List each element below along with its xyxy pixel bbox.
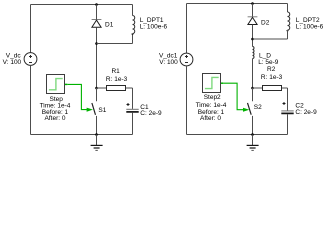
svg-text:C: 2e-9: C: 2e-9 (140, 110, 162, 117)
wire C1 bottom lead (132, 113, 134, 135)
wire D1 branch middle (96, 27, 98, 88)
wire gate signal right (green) (223, 83, 243, 110)
wire L_DPT1 branch top stub (132, 5, 134, 16)
svg-text:S2: S2 (254, 104, 262, 111)
node junction D1 / L_DPT1 tap (95, 42, 98, 45)
svg-text:After: 0: After: 0 (200, 115, 221, 122)
resistor R1 (107, 86, 126, 91)
node junction R1 tap (95, 87, 98, 90)
node junction D2 / L_DPT2 tap (251, 38, 254, 41)
node junction top of D2 branch (251, 2, 254, 5)
wire top rail right circuit (187, 3, 288, 5)
wire bottom rail left circuit (31, 134, 133, 136)
inductor L_DPT1 (131, 16, 135, 37)
wire C2 top lead (287, 88, 289, 111)
wire gate signal left (green) (67, 84, 87, 109)
inductor L_DPT2 (286, 12, 290, 33)
wire L_DPT2 bottom connection (253, 38, 288, 40)
resistor R2 (263, 86, 282, 91)
wire L_DPT2 branch bottom stub (287, 30, 289, 39)
gate arrowhead S2 (243, 108, 249, 112)
step source block Step2 (203, 74, 224, 93)
wire left branch lower (V_dc1 to bottom rail) (186, 66, 188, 135)
wire R1 left lead (97, 87, 107, 89)
wire R2 right lead (282, 87, 288, 89)
wire R2 left lead (253, 87, 263, 89)
svg-text:L: 5e-9: L: 5e-9 (258, 59, 279, 66)
node junction top of D1 branch (95, 3, 98, 6)
wire bottom rail right circuit (187, 134, 288, 136)
svg-text:Time: 1e-4: Time: 1e-4 (196, 102, 227, 109)
gate arrowhead S1 (87, 108, 93, 112)
svg-text:V: 100: V: 100 (159, 59, 178, 66)
svg-text:C: 2e-9: C: 2e-9 (295, 109, 317, 116)
svg-text:R1: R1 (111, 68, 120, 75)
step source block Step (47, 75, 68, 94)
voltage source V_dc (24, 53, 37, 66)
wire C2 bottom lead (287, 114, 289, 134)
svg-text:S1: S1 (98, 107, 106, 114)
wire C1 top lead (132, 88, 134, 109)
switch S1 (92, 88, 97, 135)
diode D1 (92, 20, 102, 28)
svg-text:L: 100e-6: L: 100e-6 (296, 23, 324, 30)
svg-text:After: 0: After: 0 (45, 115, 66, 122)
diode D2 (248, 17, 258, 25)
capacitor C1 (126, 103, 138, 112)
inductor L_D (253, 47, 255, 59)
node junction bottom of S1 branch (95, 133, 98, 136)
svg-text:Step2: Step2 (204, 94, 221, 101)
wire top rail left circuit (31, 4, 133, 6)
wire L_DPT1 branch bottom stub (132, 36, 134, 44)
wire left branch upper (V_dc to top rail) (30, 5, 32, 53)
ground right circuit (247, 135, 259, 151)
voltage source V_dc1 (180, 53, 193, 66)
wire L_D bottom lead (252, 59, 254, 89)
wire L_DPT1 bottom connection (97, 43, 133, 45)
wire left branch lower (V_dc to bottom rail) (30, 65, 32, 134)
switch S2 (248, 88, 253, 135)
svg-text:R: 1e-3: R: 1e-3 (106, 76, 128, 83)
svg-text:L: 100e-6: L: 100e-6 (140, 23, 168, 30)
wire D2 branch upper (252, 4, 254, 17)
wire left branch upper (V_dc1 to top rail) (186, 4, 188, 54)
node junction R2 tap (251, 87, 254, 90)
wire D1 branch upper (96, 5, 98, 20)
svg-text:R2: R2 (267, 66, 276, 73)
capacitor C2 (281, 102, 293, 113)
wire L_DPT2 branch top stub (287, 4, 289, 13)
svg-text:D1: D1 (105, 22, 114, 29)
wire D2 branch middle (252, 25, 254, 47)
node junction bottom of S2 branch (251, 133, 254, 136)
svg-text:V: 100: V: 100 (3, 59, 22, 66)
ground left circuit (91, 135, 103, 151)
svg-text:D2: D2 (261, 20, 270, 27)
svg-text:R: 1e-3: R: 1e-3 (261, 74, 283, 81)
wire R1 right lead (126, 87, 133, 89)
